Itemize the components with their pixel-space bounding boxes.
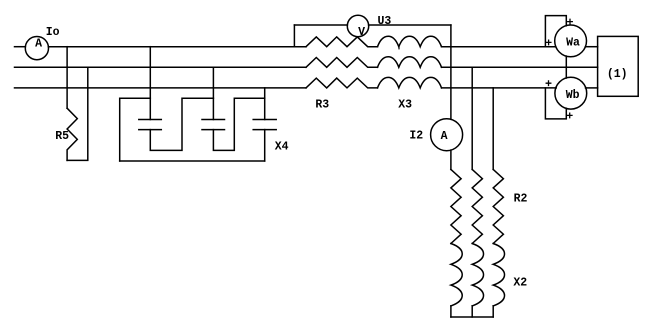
svg-text:R2: R2 <box>514 193 528 206</box>
capacitor C2 of X4 <box>202 120 225 130</box>
wire I2 to R2 column 1 <box>450 150 452 169</box>
wire capacitor riser 1 from phase A <box>149 47 151 120</box>
resistor R3 phase B zigzag <box>306 58 378 68</box>
wire C1 bottom to C2 top link <box>150 98 213 150</box>
capacitor C1 of X4 <box>139 120 162 130</box>
plus mark Wb left <box>546 81 551 86</box>
svg-text:A: A <box>441 130 448 143</box>
reactor X2 column 3 <box>493 244 504 306</box>
svg-text:U3: U3 <box>377 15 391 28</box>
plus mark Wa left <box>546 40 551 45</box>
svg-text:X2: X2 <box>513 276 527 289</box>
svg-text:V: V <box>358 26 365 39</box>
reactor X2 column 2 <box>472 244 483 306</box>
wire voltmeter left vertical <box>293 25 295 47</box>
wire voltmeter right horizontal <box>369 24 451 26</box>
wire cusp tick row 1 <box>398 47 400 49</box>
svg-text:R3: R3 <box>315 99 329 112</box>
svg-text:R5: R5 <box>55 130 69 143</box>
voltmeter V (U3) <box>347 15 368 36</box>
inductor X3 phase C bumps <box>378 77 442 88</box>
resistor R3 phase C zigzag <box>306 78 378 88</box>
svg-text:A: A <box>35 38 42 51</box>
svg-text:X4: X4 <box>275 141 289 154</box>
wire phase C Wb to box <box>586 87 598 89</box>
wire R5 drop from phase A <box>66 47 68 108</box>
svg-text:I2: I2 <box>409 130 423 143</box>
svg-text:X3: X3 <box>398 99 412 112</box>
wattmeter Wa <box>555 25 587 57</box>
inductor X3 phase B bumps <box>378 57 442 68</box>
wire phase A Wa to box <box>585 46 597 48</box>
plus mark Wa top <box>568 19 573 24</box>
wire phase C left <box>15 87 307 89</box>
resistor R5 <box>67 108 77 160</box>
wire column 2 to bus <box>471 306 473 317</box>
resistor R2 column 2 <box>472 169 482 243</box>
wire column 3 from phase C <box>492 88 494 169</box>
wire R5 bottom return to phase B <box>67 67 88 160</box>
svg-text:(1): (1) <box>607 68 628 81</box>
wire vertical drop to I2 <box>450 25 452 119</box>
wire column 3 to bus <box>492 306 494 317</box>
svg-text:Wb: Wb <box>566 89 580 102</box>
capacitor C3 of X4 <box>253 120 276 130</box>
wire C3 bottom drop <box>264 130 266 161</box>
inductor X3 phase A bumps <box>378 36 442 47</box>
wire column 2 from phase B <box>471 67 473 169</box>
wire Wa current loop <box>545 16 566 47</box>
wire column 1 to bus <box>450 306 452 317</box>
ammeter A (Io) <box>25 37 48 60</box>
wattmeter Wb <box>555 77 587 109</box>
resistor R2 column 1 <box>451 169 461 243</box>
load box (1) <box>598 36 639 96</box>
svg-text:Wa: Wa <box>566 37 580 50</box>
wire capacitor riser 3 from phase C <box>264 88 266 120</box>
ammeter A (I2) <box>431 119 463 151</box>
svg-text:Io: Io <box>46 26 60 39</box>
wire phase B right to box <box>442 66 598 68</box>
resistor R2 column 3 <box>493 169 503 243</box>
reactor X2 column 1 <box>451 244 462 306</box>
wire voltmeter left horizontal <box>294 24 347 26</box>
resistor R3 phase A zigzag <box>306 37 378 47</box>
wire capacitor riser 2 from phase B <box>212 67 214 119</box>
wire C2 bottom to C3 top link <box>213 98 264 150</box>
wire phase A middle <box>48 46 306 48</box>
wire X4 left rail <box>120 98 151 161</box>
wire X4 bottom rail <box>120 160 265 162</box>
wire phase C right <box>442 87 557 89</box>
wire bottom bus <box>451 316 493 318</box>
plus mark Wb bottom <box>567 113 572 118</box>
wire Wb voltage loop <box>545 88 566 119</box>
wire phase A right <box>442 46 556 48</box>
wire Wa bottom to Wb top <box>565 56 567 78</box>
wire phase A left stub <box>15 46 26 48</box>
wire phase B left <box>15 66 307 68</box>
